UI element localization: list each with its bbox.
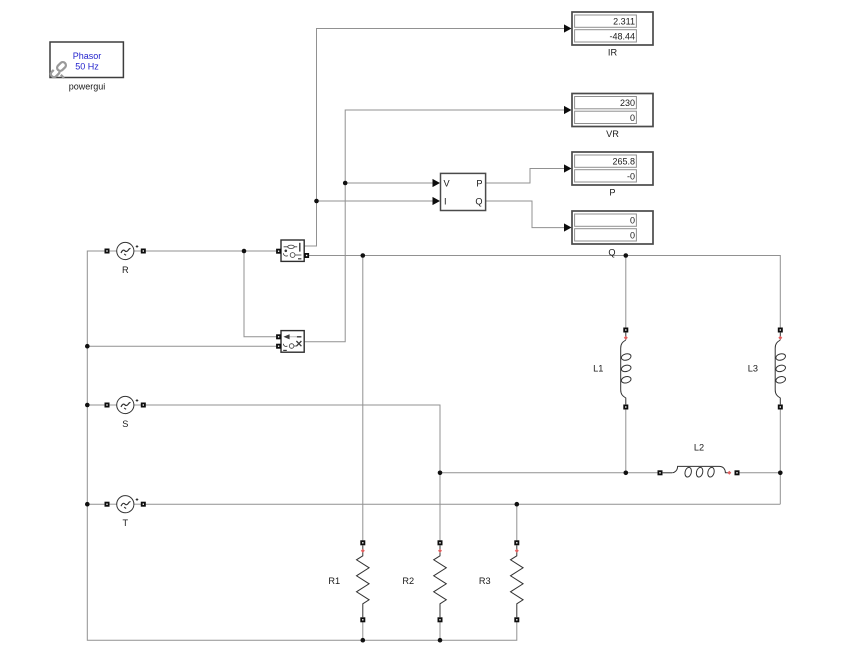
wire: L3 bottom down to T phase wire [779,407,781,504]
display Q [564,211,653,257]
junction: phase R bus / R1 drop [361,253,366,258]
resistor R2 [402,540,446,622]
signal wire: PQ block P output to P display [486,169,565,184]
wire: left neutral rail from source R down and along bottom to R3 [87,251,517,640]
svg-text:50 Hz: 50 Hz [75,62,99,72]
inductor L2 (horizontal) [658,442,740,477]
svg-text:V: V [444,178,451,188]
wire: drop from T wire to R3 [516,504,518,543]
svg-text:R1: R1 [328,576,340,586]
svg-text:I: I [444,196,447,206]
svg-text:R2: R2 [402,576,414,586]
display P [564,152,653,198]
svg-text:T: T [122,518,128,528]
junction: ground bus / R1 [361,638,366,643]
powergui block [50,42,124,92]
wire: branch from R wire down to voltage measurement + input [244,251,279,337]
junction: L1 bottom / L2 wire [624,471,629,476]
source T [105,496,146,529]
svg-text:Q: Q [608,247,615,257]
source S [105,396,146,429]
junction: rail / source T [85,502,90,507]
display VR [564,94,653,139]
junction: v signal / V input branch [343,181,348,186]
op block U1: active and reactive power measurement V/I -> P/Q [433,173,486,210]
resistor R3 [479,540,523,622]
wire: source S to R2 via vertical at x=440 [141,405,440,543]
display IR [564,12,653,58]
source R [105,242,146,275]
wire: phase R bus from current measurement to L3 top [307,256,781,331]
signal wire: voltage measurement v output up to VR display [305,110,565,342]
svg-text:VR: VR [606,129,619,139]
svg-text:Phasor: Phasor [73,51,102,61]
wire: source T left stub to rail [87,503,110,505]
svg-text:P: P [609,188,615,198]
wire: source S left stub to rail [87,404,110,406]
svg-text:IR: IR [608,48,618,58]
junction: T wire / R3 drop [515,502,520,507]
wire: drop from phase R bus to R1 [362,256,364,544]
wire: voltage measurement - input from neutral rail [87,345,279,347]
signal wire: branch of i to PQ block I input [317,200,433,202]
current measurement block [276,240,309,261]
resistor R1 [328,540,369,622]
svg-text:powergui: powergui [69,82,106,92]
junction: R wire / voltage measurement branch [242,249,247,254]
inductor L3 [748,328,786,410]
junction: S vertical / L2 wire [438,471,443,476]
svg-text:R3: R3 [479,576,491,586]
signal wire: PQ block Q output to Q display [486,201,565,228]
wire: source T phase wire to the right [141,503,780,505]
wire: source R to current measurement block [141,250,279,252]
wire: L1 bottom to junction and to L2 left [625,407,627,473]
svg-text:R: R [122,265,129,275]
inductor L1 [593,328,632,410]
wire: R2 bottom to ground bus [439,620,441,640]
junction: rail / source S [85,403,90,408]
junction: L3 bottom / L2 right [778,471,783,476]
voltage measurement block [276,331,304,353]
svg-text:S: S [122,419,128,429]
svg-text:Q: Q [475,196,482,206]
wire: drop from phase R bus to L1 top [625,256,627,331]
junction: i signal / I input branch [314,199,319,204]
svg-text:L3: L3 [748,364,758,374]
junction: rail / v-measurement minus [85,344,90,349]
signal wire: branch of v to PQ block V input [345,182,432,184]
svg-text:L2: L2 [694,442,704,452]
wire: R1 bottom to ground bus [362,620,364,640]
junction: phase R bus / L1 drop [624,253,629,258]
svg-text:L1: L1 [593,364,603,374]
svg-text:P: P [476,178,482,188]
wire: L2 right to L3 bottom junction [737,472,780,474]
junction: ground bus / R2 [438,638,443,643]
signal wire: current measurement i output up to IR display [305,29,565,247]
